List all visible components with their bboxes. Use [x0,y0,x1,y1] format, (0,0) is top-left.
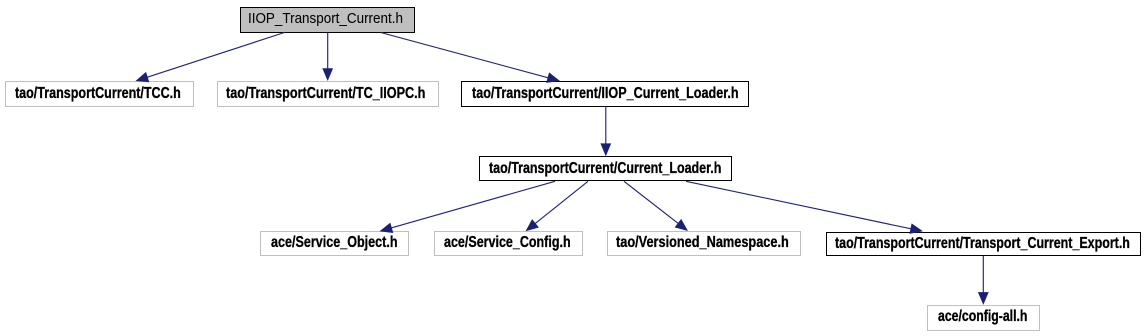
edge E1 IIOP_Transport_Current.h to tao/TransportCurrent/TCC.h [136,33,285,83]
node N4 tao/TransportCurrent/IIOP_Current_Loader.h [461,81,750,107]
edge E7 Current_Loader.h to tao/Versioned_Namespace.h [624,181,688,231]
node N10 ace/config-all.h [927,305,1040,331]
node N3 tao/TransportCurrent/TC_IIOPC.h [217,81,440,107]
edge E5 Current_Loader.h to ace/Service_Object.h [380,181,556,233]
edge E2 IIOP_Transport_Current.h to tao/TransportCurrent/TC_IIOPC.h [322,33,333,82]
edge E8 Current_Loader.h to tao/TransportCurrent/Transport_Current_Export.h [686,181,923,234]
node N5 tao/TransportCurrent/Current_Loader.h [479,156,732,181]
node N9 tao/TransportCurrent/Transport_Current_Export.h [826,232,1141,257]
node N2 tao/TransportCurrent/TCC.h [5,81,194,107]
node N1 IIOP_Transport_Current.h (current file, grey) [240,7,416,33]
edge E4 IIOP_Current_Loader.h to tao/TransportCurrent/Current_Loader.h [600,107,611,156]
edge E6 Current_Loader.h to ace/Service_Config.h [526,181,589,231]
node N6 ace/Service_Object.h [260,231,409,255]
node N8 tao/Versioned_Namespace.h [607,231,801,255]
node N7 ace/Service_Config.h [434,231,584,255]
edge E3 IIOP_Transport_Current.h to tao/TransportCurrent/IIOP_Current_Loader.h [381,33,560,83]
edge E9 Transport_Current_Export.h to ace/config-all.h [978,256,989,305]
